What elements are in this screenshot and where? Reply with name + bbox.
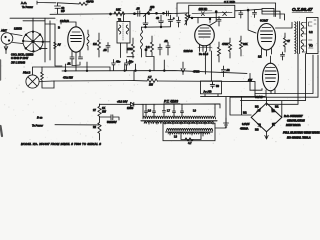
svg-text:40/40: 40/40: [86, 0, 94, 4]
electrolytic caps 40+40 mid: [112, 60, 116, 71]
scan noise speckle: [1, 1, 320, 145]
resistor R8: [151, 36, 154, 56]
coil L2 left: [87, 30, 89, 50]
svg-text:3.2: 3.2: [309, 30, 313, 34]
tube socket V1 12BE6 top view: [23, 32, 43, 52]
svg-text:B+ 14.5: B+ 14.5: [199, 52, 209, 56]
small resistor 4.7 bottom: [185, 138, 193, 141]
resistor R16 4.7 2W on rail2: [147, 79, 158, 83]
transformer primary comb: [143, 116, 216, 119]
secondary comb L8: [167, 129, 213, 131]
bridge diode 4: [272, 123, 275, 127]
components under T2 box: cap: [217, 17, 221, 27]
svg-text:4.7: 4.7: [148, 75, 152, 79]
wire top long to output: [177, 3, 276, 17]
resistor R12: [218, 42, 221, 62]
svg-text:.02: .02: [164, 39, 168, 43]
svg-text:22K: 22K: [243, 42, 248, 46]
bridge rectifier diamond: [251, 103, 282, 132]
svg-text:MODEL NO. 254437 FROM 25MH: MODEL NO. 254437 FROM 25MHL # 7500 TO SE…: [21, 142, 101, 146]
ground arrow mid: [181, 62, 185, 75]
resistor mini: [185, 14, 188, 25]
wire L below R7: [127, 50, 154, 71]
resistor R top 40/40: [79, 2, 88, 5]
svg-text:.01: .01: [67, 62, 71, 66]
wire corner nest to output stage: [262, 8, 274, 16]
oscillator cap C7: [163, 11, 171, 16]
svg-text:ANT: ANT: [1, 28, 7, 32]
capacitor C12b: [253, 10, 257, 18]
svg-text:O.T. RED: O.T. RED: [224, 0, 235, 4]
capacitor C3 on bus: [135, 11, 147, 16]
wire top segment with resistor: [58, 3, 80, 4]
wire ant to ground: [5, 44, 7, 50]
T2 internal divider line: [192, 12, 232, 13]
svg-text:.02: .02: [226, 68, 230, 72]
tube V3 grids: [199, 31, 211, 37]
svg-text:AV: AV: [58, 43, 62, 47]
svg-text:450MA: 450MA: [240, 127, 248, 131]
electrolytic cap C6: [168, 15, 173, 26]
wires right of socket: [45, 18, 62, 66]
coil L3 tall: [141, 27, 143, 57]
svg-text:B on: B on: [37, 116, 43, 120]
svg-text:2W: 2W: [102, 110, 106, 114]
electrolytic cap C5: [159, 15, 164, 27]
svg-text:455 KC: 455 KC: [199, 7, 208, 11]
svg-text:+5.6 24V: +5.6 24V: [117, 100, 128, 104]
wire socket top to bus: [10, 18, 33, 32]
tube V3 envelope: [195, 25, 215, 46]
junction dots under box: [191, 17, 193, 19]
capacitor C9: [158, 44, 162, 55]
svg-text:O.Z.86.47: O.Z.86.47: [292, 7, 313, 12]
bridge diode 2: [272, 109, 276, 112]
resistor by pilot: [41, 70, 44, 87]
capacitor C10: [166, 42, 170, 55]
svg-text:FULL ELECTRIC WIRE WAVE DC: FULL ELECTRIC WIRE WAVE DC: [283, 130, 320, 134]
svg-text:B: B: [58, 25, 60, 29]
svg-text:M2: M2: [255, 104, 259, 108]
svg-text:12BE6: 12BE6: [14, 27, 22, 31]
svg-text:47K: 47K: [127, 47, 132, 51]
capacitor C13: [222, 66, 226, 77]
svg-text:1M: 1M: [93, 42, 97, 46]
svg-text:2.2: 2.2: [146, 45, 150, 49]
speaker box: [307, 18, 319, 54]
transformer secondary box: [163, 123, 215, 141]
tube V5 pins: [254, 89, 276, 97]
tube V2 envelope: [68, 27, 84, 52]
diode D1: [127, 102, 143, 106]
capacitor C mid: [106, 43, 110, 53]
trimmer X left: [201, 12, 204, 16]
svg-text:DEW DROP.: DEW DROP.: [286, 123, 301, 127]
nested wires from output down to bridge: [230, 55, 318, 101]
capacitor C1 40MF: [55, 3, 61, 14]
trimmer X right: [223, 12, 227, 16]
junction dot 2: [148, 13, 150, 15]
IF transformer T2 can box: [189, 5, 235, 17]
output transformer T3 secondary top: [301, 23, 303, 37]
tube V5 grids: [265, 71, 276, 82]
svg-text:40+: 40+: [129, 60, 134, 64]
vertical drops to rail: [65, 60, 164, 71]
taps secondary: [170, 132, 203, 136]
ground arrow under antenna: [4, 47, 8, 54]
output transformer T3 primary: [295, 22, 296, 54]
junction dots on bus: [215, 11, 217, 13]
junction dots rail: [65, 70, 67, 72]
resistor on wire x55: [54, 42, 56, 49]
power resistor chain vertical: [98, 104, 101, 120]
svg-text:M2: M2: [243, 110, 247, 114]
svg-text:To Power: To Power: [22, 5, 33, 9]
svg-text:M1: M1: [275, 104, 279, 108]
output transformer T3 core: [298, 22, 300, 54]
svg-text:.05: .05: [103, 48, 107, 52]
svg-text:P.T. 5183: P.T. 5183: [164, 100, 178, 104]
capacitor C14: [281, 52, 285, 60]
svg-text:1K: 1K: [102, 106, 105, 110]
wire bridge feeds: [230, 101, 251, 115]
resistor R13 470K: [229, 38, 232, 58]
wire corner nest 2: [262, 11, 280, 18]
main B+ bus wire: [50, 9, 262, 14]
svg-text:To Power: To Power: [32, 123, 43, 127]
svg-text:470K: 470K: [222, 42, 228, 46]
svg-text:40+: 40+: [116, 60, 121, 64]
components below tube V2: [70, 57, 74, 62]
tube V4 envelope: [258, 24, 276, 50]
capacitor C15 50/150V: [100, 115, 120, 120]
svg-text:460: 460: [150, 5, 155, 9]
secondary comb lower bumps: [168, 133, 210, 135]
rail 2: [54, 81, 255, 82]
svg-text:.05: .05: [136, 6, 140, 10]
svg-text:4.7: 4.7: [188, 141, 192, 145]
tube V3 pins: [200, 44, 211, 51]
wire corner nest 3: [262, 9, 285, 20]
pilot wires: [33, 67, 111, 82]
wire tube V2 top cap: [61, 22, 76, 27]
wire top PT: [100, 103, 127, 105]
svg-text:6.3VØ: 6.3VØ: [242, 122, 249, 126]
bridge diode 3: [257, 124, 260, 128]
svg-text:M3: M3: [255, 127, 259, 131]
svg-text:12BA6: 12BA6: [184, 49, 193, 53]
svg-text:Pilot 2: Pilot 2: [23, 71, 31, 75]
svg-text:JW 1 B7965: JW 1 B7965: [11, 60, 26, 64]
tube V5 envelope 6CA5: [263, 63, 279, 91]
svg-text:A+ A/B: A+ A/B: [204, 90, 212, 94]
capacitor C12a: [239, 10, 243, 18]
svg-text:6CM7: 6CM7: [260, 18, 268, 22]
cap blob: [128, 60, 131, 65]
wire secondary bottom: [181, 132, 201, 140]
resistor R15 output grid: [284, 33, 287, 52]
variable cap arrow 2: [185, 15, 190, 25]
cap electro: [177, 17, 181, 27]
tube V4 grids: [261, 31, 273, 42]
resistor R5 vertical left of IF: [98, 40, 101, 57]
electrolytic cap C4: [143, 14, 148, 28]
wire box to ground: [215, 118, 226, 128]
wires mid right going down: [250, 73, 255, 96]
output transformer T3 secondary bottom: [301, 40, 303, 52]
primary comb lower bumps: [144, 122, 214, 124]
wire ant to socket: [10, 34, 23, 44]
left edge smudge: [1, 126, 3, 136]
tube V4 pins: [262, 49, 272, 56]
resistor R2 on bus 10K: [114, 12, 125, 16]
svg-text:NO SIGNAL TESLA: NO SIGNAL TESLA: [287, 136, 311, 140]
tube V2 grid lines: [71, 36, 82, 42]
IF transformer T1 box: [117, 22, 130, 44]
wire drop from bus: [210, 10, 257, 33]
svg-text:MF: MF: [61, 9, 65, 13]
ground symbol right of PT: [224, 97, 229, 127]
wire socket pins to right: [40, 42, 50, 49]
vertical connect rails: [133, 71, 135, 81]
wire taps to top: [143, 104, 215, 118]
tube V2 pin wires: [72, 51, 80, 71]
heater rail long: [62, 71, 247, 74]
svg-text:47Ω RW: 47Ω RW: [63, 76, 73, 80]
svg-text:VC: VC: [309, 43, 313, 47]
wire V5 top feed: [270, 56, 272, 63]
svg-text:A.C.: A.C.: [21, 1, 27, 5]
bridge bottom arrow: [265, 132, 268, 139]
bridge diode 1: [257, 108, 261, 111]
antenna coil L1: [1, 33, 13, 45]
resistor R14: [240, 36, 243, 56]
wire tube V4 to transformer: [276, 22, 293, 28]
wire cap bottoms join: [142, 26, 171, 28]
svg-text:50/150V: 50/150V: [107, 120, 117, 124]
svg-text:D.C. CURRENT: D.C. CURRENT: [284, 114, 303, 118]
svg-text:10K: 10K: [116, 7, 121, 11]
filter cap can box: [201, 81, 222, 94]
resistor R7: [132, 38, 135, 58]
svg-text:CIRCULATION: CIRCULATION: [287, 119, 305, 123]
variable cap arrow 1: [144, 9, 152, 17]
junction dot: [134, 13, 136, 15]
svg-text:2W: 2W: [149, 82, 153, 86]
svg-text:1N60: 1N60: [127, 106, 134, 110]
svg-text:C 5643 P 1347: C 5643 P 1347: [11, 56, 29, 60]
wires below tube V3: [205, 51, 211, 81]
small caps row above primary: [145, 109, 148, 117]
